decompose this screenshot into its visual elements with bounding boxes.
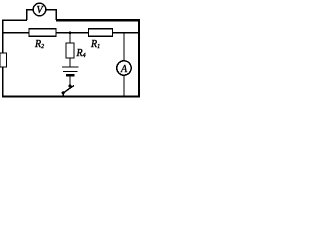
resistor on left border: [0, 53, 7, 67]
wire: middle horizontal wire (between R2 and R1): [56, 32, 88, 33]
ammeter A: [117, 61, 131, 75]
wire: voltmeter branch left vertical riser: [26, 9, 27, 20]
resistor R1: [89, 29, 113, 36]
wire: stub from voltmeter to right riser: [46, 9, 58, 10]
wire: voltmeter branch right vertical riser: [56, 9, 57, 20]
wire: ammeter bottom to bottom wire: [123, 75, 124, 96]
battery positive plate (long thin): [62, 66, 79, 67]
wire: middle horizontal wire (left of R2): [2, 32, 29, 33]
junction dot at middle-wire / center-branch node: [69, 32, 72, 35]
wire: middle horizontal wire (right of R1): [113, 32, 139, 33]
wire: top side right segment of outer loop (bold): [56, 19, 140, 22]
wire: left border of outer loop: [2, 20, 4, 97]
wire: ammeter branch from middle wire down to A: [123, 33, 124, 61]
switch terminal dot (bottom): [62, 91, 65, 94]
voltmeter V: [33, 3, 46, 16]
switch lever: [63, 86, 74, 94]
wire: center branch from R4 down to battery: [69, 58, 70, 67]
wire: top side left segment of outer loop: [2, 20, 27, 21]
wire: bottom border of outer loop: [2, 96, 140, 98]
svg-text:A: A: [120, 64, 128, 75]
battery plate (long thin, second): [63, 71, 78, 72]
resistor R4: [66, 43, 74, 58]
wire: right border of outer loop: [138, 20, 140, 97]
wire: center branch from middle wire down to R4: [69, 33, 70, 43]
switch terminal dot (top, on center branch): [68, 84, 71, 87]
battery negative plate (short thick): [66, 74, 74, 77]
wire: stub from left riser to voltmeter: [26, 9, 34, 10]
wire: center branch from battery down to switch: [69, 76, 70, 85]
resistor R2: [29, 29, 56, 36]
wire: switch to bottom wire: [63, 93, 64, 96]
